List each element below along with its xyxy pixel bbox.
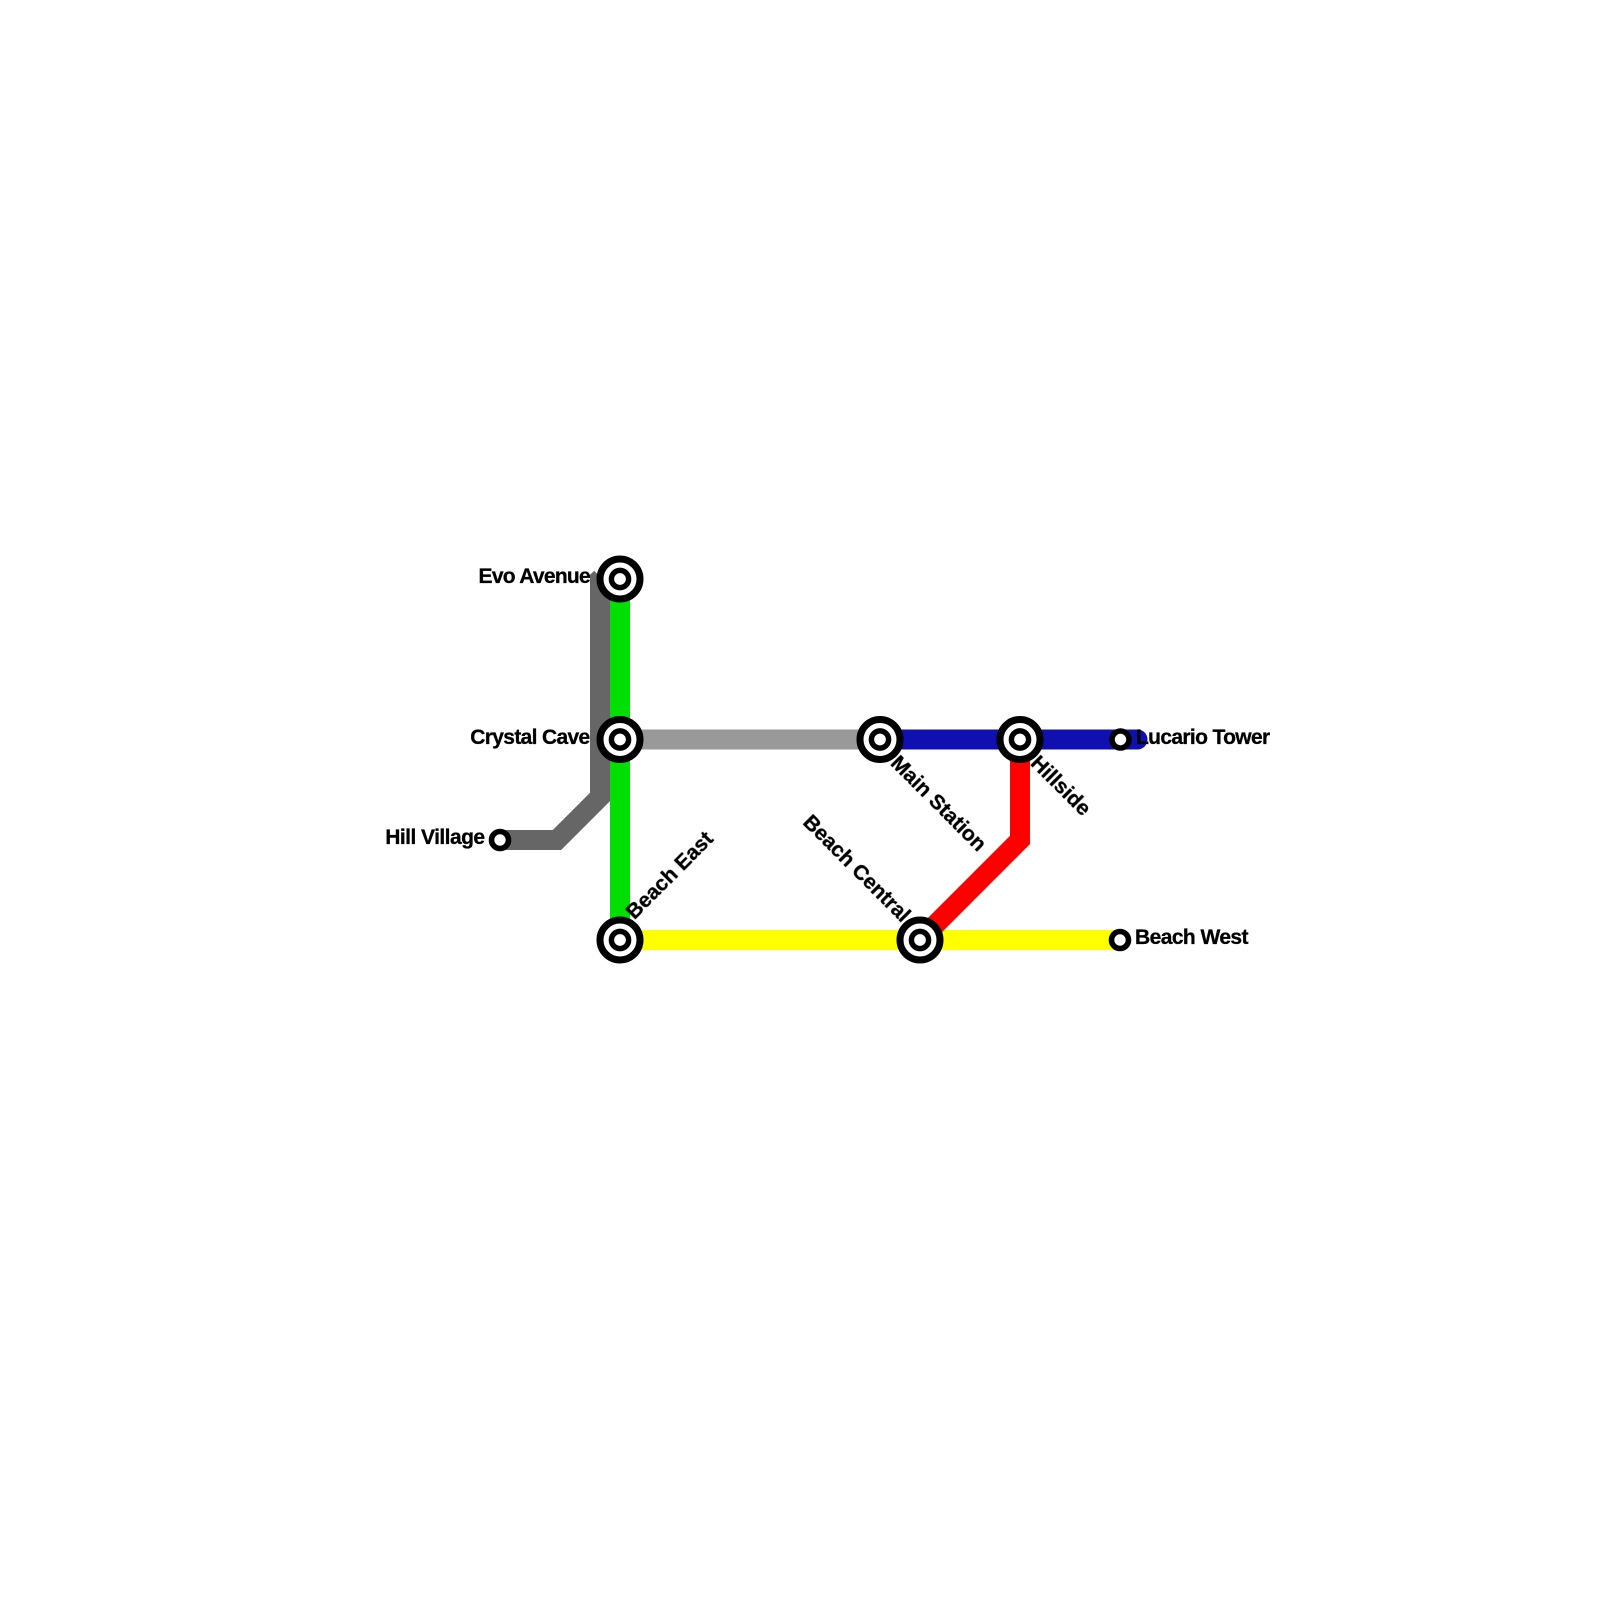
node Beach East station: [600, 920, 640, 960]
wire red line Hillside to Beach Central: [920, 740, 1020, 941]
wire yellow line Beach East to Beach West: [620, 930, 1120, 950]
label Beach West: [1135, 927, 1248, 948]
wire green line Evo Avenue to Beach East: [610, 579, 630, 940]
wire dark gray line Evo Avenue to Hill Village: [500, 578, 601, 840]
label Main Station: [887, 752, 990, 855]
wire blue line Main Station to Lucario Tower: [880, 730, 1138, 750]
node Hill Village station: [492, 832, 509, 849]
node Lucario Tower station: [1112, 731, 1129, 748]
label Lucario Tower: [1136, 727, 1270, 748]
label Hillside: [1027, 752, 1095, 820]
label Beach Central: [799, 812, 914, 927]
wire light gray line Crystal Cave to Main Station: [620, 730, 880, 750]
label Crystal Cave: [470, 727, 589, 748]
node Hillside station: [1000, 720, 1040, 760]
node Beach West station: [1112, 932, 1129, 949]
label Hill Village: [385, 827, 484, 848]
node Beach Central station: [900, 920, 940, 960]
label Evo Avenue: [479, 566, 590, 587]
node Evo Avenue station: [600, 559, 640, 599]
node Crystal Cave station: [600, 720, 640, 760]
label Beach East: [622, 828, 717, 923]
node Main Station station: [860, 720, 900, 760]
